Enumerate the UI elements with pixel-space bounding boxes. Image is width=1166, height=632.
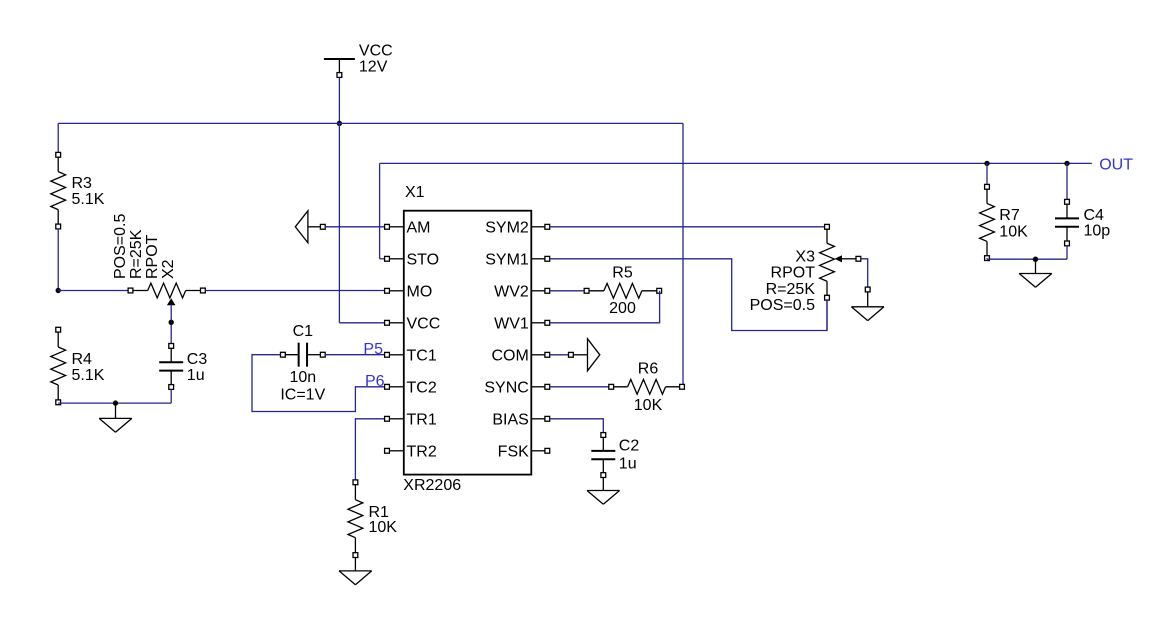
wire [205,290,387,292]
pin SYM2 [485,219,549,236]
pin TC1 [385,347,437,364]
wire X3 bottom [826,300,828,331]
port arrow AM input [295,211,325,243]
wire [325,226,387,228]
wire TR1 to R1 [355,419,387,480]
svg-text:1u: 1u [619,456,637,473]
wire [58,122,683,124]
wire [550,354,569,356]
pin SYNC [484,379,549,396]
svg-text:12V: 12V [359,59,388,76]
svg-text:RPOT: RPOT [771,265,816,282]
svg-text:TC1: TC1 [407,347,437,364]
svg-text:POS=0.5: POS=0.5 [750,297,815,314]
svg-text:10K: 10K [999,224,1028,241]
svg-text:X2: X2 [160,259,177,279]
wire [987,246,1067,260]
pin SYM1 [485,251,549,268]
svg-text:POS=0.5: POS=0.5 [112,214,129,279]
svg-text:10n: 10n [289,369,316,386]
label net P6 [365,373,385,390]
svg-text:VCC: VCC [359,43,393,60]
svg-text:200: 200 [609,300,636,317]
resistor R5 [584,265,661,317]
capacitor C1 [280,323,325,403]
wire VCC vertical [339,123,387,322]
node VCC junction [337,121,342,126]
pin AM [385,219,431,236]
wire [325,354,387,356]
resistor R7 [980,184,1028,260]
pin MO [385,283,433,300]
pin WV2 [494,283,550,300]
wire [550,386,609,388]
svg-text:C4: C4 [1084,207,1105,224]
svg-text:COM: COM [491,347,528,364]
svg-text:FSK: FSK [498,443,529,460]
wire [986,163,988,184]
wire STO vertical [380,163,387,258]
ground [339,557,372,584]
port arrow COM output [569,339,600,371]
wire C1 to TC2 loop [252,355,387,412]
svg-text:OUT: OUT [1099,156,1133,173]
svg-text:R=25K: R=25K [128,229,145,279]
svg-text:BIAS: BIAS [492,411,528,428]
wire [58,389,171,403]
svg-text:SYNC: SYNC [484,379,528,396]
wire [1066,163,1068,199]
pin TR1 [385,411,437,428]
pin STO [385,251,440,268]
wire X3 wiper to ground [861,259,868,287]
svg-text:WV2: WV2 [494,283,529,300]
wire [57,123,59,152]
svg-text:WV1: WV1 [494,315,529,332]
resistor R1 [348,480,397,558]
svg-text:STO: STO [407,251,440,268]
svg-text:AM: AM [407,219,431,236]
resistor R3 [51,152,105,229]
capacitor C3 [159,344,207,390]
svg-text:X3: X3 [795,249,815,266]
wire [58,290,128,292]
wire [550,290,585,292]
svg-text:R=25K: R=25K [766,281,816,298]
svg-text:P6: P6 [365,373,385,390]
svg-text:R5: R5 [612,265,633,282]
node ground junction [113,400,118,405]
svg-text:5.1K: 5.1K [72,367,105,384]
pin TR2 [385,443,437,460]
pin BIAS [492,411,549,428]
svg-text:1u: 1u [187,367,205,384]
svg-text:XR2206: XR2206 [403,477,461,494]
wire [682,123,684,386]
svg-text:10p: 10p [1084,223,1111,240]
node ground junction [1033,257,1038,262]
svg-text:MO: MO [407,283,433,300]
svg-text:X1: X1 [405,184,425,201]
pin FSK [498,443,550,460]
svg-text:C3: C3 [187,351,208,368]
svg-text:IC=1V: IC=1V [280,386,325,403]
node R3/R4/X2 junction [56,288,61,293]
wire SYM1 to X3 [550,259,827,331]
pin TC2 [385,379,437,396]
ground [851,287,884,321]
svg-text:C1: C1 [293,323,314,340]
resistor R4 [51,327,105,404]
svg-text:R7: R7 [999,207,1020,224]
label net P5 [363,341,383,358]
svg-text:10K: 10K [634,397,663,414]
resistor R6 [609,361,685,415]
svg-text:P5: P5 [363,341,383,358]
capacitor C2 [591,433,639,478]
svg-text:10K: 10K [369,519,398,536]
svg-text:R6: R6 [638,361,659,378]
label net OUT [1099,156,1133,173]
pin WV1 [494,315,550,332]
potentiometer X2 [112,214,206,306]
wire R5 to WV1 [550,291,660,323]
svg-text:R3: R3 [72,175,93,192]
pin COM [491,347,549,364]
potentiometer X3 [750,224,861,314]
wire [550,226,827,228]
wire X2 wiper to C3 [170,305,172,344]
ground [99,403,132,432]
wire BIAS to C2 [550,419,604,433]
ground [1019,259,1052,287]
capacitor C4 [1055,199,1110,245]
svg-text:C2: C2 [619,437,640,454]
svg-text:TR1: TR1 [407,411,437,428]
wire OUT horizontal [380,162,1092,164]
svg-text:SYM2: SYM2 [485,219,529,236]
wire [338,77,340,123]
svg-text:R4: R4 [72,351,93,368]
node wiper/C3 junction [169,320,174,325]
power symbol VCC 12V [324,43,393,78]
node OUT/C4 junction [1064,161,1069,166]
svg-text:SYM1: SYM1 [485,251,529,268]
svg-text:5.1K: 5.1K [72,191,105,208]
pin VCC [385,315,441,332]
svg-text:VCC: VCC [407,315,441,332]
svg-text:TR2: TR2 [407,443,437,460]
wire [57,229,59,291]
node OUT/R7 junction [984,161,989,166]
op-amp U1 XR2206 body [403,184,531,494]
ground [587,477,620,504]
svg-text:RPOT: RPOT [144,234,161,279]
svg-text:TC2: TC2 [407,379,437,396]
